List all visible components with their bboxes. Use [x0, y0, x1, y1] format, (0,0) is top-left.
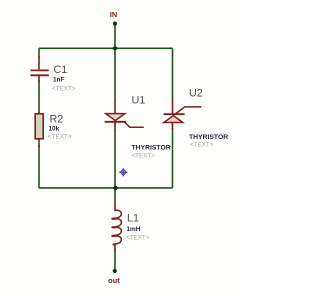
wire to out: [114, 249, 116, 271]
svg-text:L1: L1: [127, 212, 139, 224]
thyristor U2: [164, 107, 202, 123]
svg-text:THYRISTOR: THYRISTOR: [132, 145, 171, 152]
resistor R2: [35, 114, 43, 139]
svg-text:10k: 10k: [49, 125, 60, 132]
svg-text:1mH: 1mH: [127, 226, 141, 233]
resistor R2 pins: [38, 112, 40, 115]
wire right lower: [172, 128, 174, 188]
node out dot: [113, 269, 117, 273]
wire to inductor: [114, 188, 116, 203]
node bottom junction: [113, 186, 117, 190]
svg-text:C1: C1: [54, 64, 68, 76]
wire right upper: [172, 48, 174, 99]
svg-text:THYRISTOR: THYRISTOR: [189, 134, 228, 141]
svg-text:IN: IN: [110, 10, 117, 19]
wire top horizontal: [39, 47, 173, 49]
wire IN drop: [114, 24, 116, 49]
svg-text:U2: U2: [189, 88, 203, 100]
thyristor U1 pins: [114, 100, 116, 114]
svg-text:out: out: [108, 276, 120, 285]
capacitor C1: [31, 70, 49, 75]
svg-text:<TEXT>: <TEXT>: [126, 234, 150, 241]
inductor L1 pins: [114, 202, 116, 211]
node top junction: [113, 46, 117, 50]
svg-text:R2: R2: [50, 113, 64, 125]
svg-text:<TEXT>: <TEXT>: [132, 152, 156, 159]
svg-text:U1: U1: [132, 95, 146, 107]
inductor L1: [112, 210, 121, 245]
svg-text:<TEXT>: <TEXT>: [52, 86, 76, 93]
wire bottom horizontal: [39, 187, 173, 189]
capacitor C1 pins: [38, 56, 40, 69]
wire left vertical: [38, 48, 40, 58]
origin marker: [119, 168, 127, 176]
wire left middle segment: [38, 80, 40, 114]
thyristor U1: [105, 114, 144, 128]
thyristor U2 pins: [172, 98, 174, 115]
svg-text:<TEXT>: <TEXT>: [190, 142, 214, 149]
node IN dot: [113, 22, 117, 26]
svg-text:1nF: 1nF: [53, 77, 64, 84]
wire left lower segment: [38, 145, 40, 188]
svg-text:<TEXT>: <TEXT>: [48, 133, 72, 140]
wire middle lower: [114, 130, 116, 188]
wire middle upper: [114, 48, 116, 101]
